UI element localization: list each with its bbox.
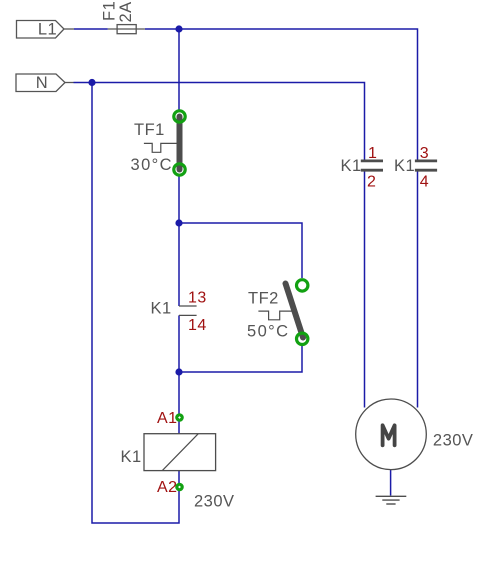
- wire contact K1 3/4 to motor right: [417, 172, 419, 408]
- wire middle junction to TF2 top: [179, 223, 302, 278]
- junction lower node: [175, 368, 182, 375]
- terminal N: [16, 74, 74, 92]
- relay contact K1 1/2: [341, 145, 384, 191]
- svg-text:14: 14: [188, 317, 207, 334]
- svg-text:A2: A2: [157, 479, 178, 496]
- wire top junction down to TF1: [178, 29, 180, 110]
- svg-text:230V: 230V: [433, 432, 474, 450]
- junction on N net: [88, 79, 95, 86]
- svg-text:K1: K1: [341, 157, 362, 175]
- wire contact K1 1/2 to motor left: [364, 172, 366, 408]
- svg-text:1: 1: [368, 145, 377, 162]
- svg-text:TF2: TF2: [248, 290, 279, 308]
- svg-text:2: 2: [367, 174, 376, 191]
- terminal L1: [17, 21, 75, 39]
- relay contact K1 13/14 (NO): [151, 290, 207, 335]
- junction top at fuse output: [175, 25, 182, 32]
- relay contact K1 3/4: [394, 145, 437, 191]
- svg-text:K1: K1: [151, 300, 172, 318]
- pin A2: [157, 479, 184, 496]
- thermal switch TF2 (open): [247, 280, 308, 345]
- svg-text:K1: K1: [394, 157, 415, 175]
- motor M: [356, 399, 474, 470]
- svg-text:230V: 230V: [194, 493, 235, 511]
- pin A1: [157, 410, 184, 427]
- wire middle junction to contact K1 13: [178, 223, 180, 306]
- svg-text:3: 3: [420, 145, 429, 162]
- wire motor bottom to ground: [390, 469, 392, 495]
- wire lower junction to coil A1: [178, 372, 180, 434]
- svg-text:50°C: 50°C: [247, 323, 289, 341]
- svg-text:A1: A1: [157, 410, 178, 427]
- ground: [376, 496, 407, 504]
- wire L1 terminal to fuse: [74, 28, 108, 30]
- wire TF1 to middle junction: [178, 176, 180, 223]
- wire contact K1 14 to lower junction: [178, 315, 180, 372]
- wire N terminal across to right branch: [74, 83, 365, 160]
- svg-text:4: 4: [420, 174, 429, 191]
- wire fuse to top-right corner: [145, 29, 418, 160]
- fuse F1: [108, 25, 145, 34]
- svg-text:13: 13: [188, 290, 207, 307]
- wire N junction down left side and to coil A2: [92, 83, 179, 524]
- svg-text:TF1: TF1: [134, 121, 165, 139]
- svg-text:F1: F1: [101, 1, 119, 21]
- thermal switch TF1 (closed): [131, 111, 186, 175]
- relay coil K1: [121, 434, 216, 471]
- svg-text:N: N: [36, 74, 48, 92]
- svg-text:30°C: 30°C: [131, 156, 173, 174]
- svg-text:2A: 2A: [117, 1, 135, 22]
- svg-text:L1: L1: [38, 21, 57, 39]
- wire TF2 bottom to lower junction: [179, 346, 302, 372]
- svg-text:K1: K1: [121, 448, 142, 466]
- junction middle node: [175, 219, 182, 226]
